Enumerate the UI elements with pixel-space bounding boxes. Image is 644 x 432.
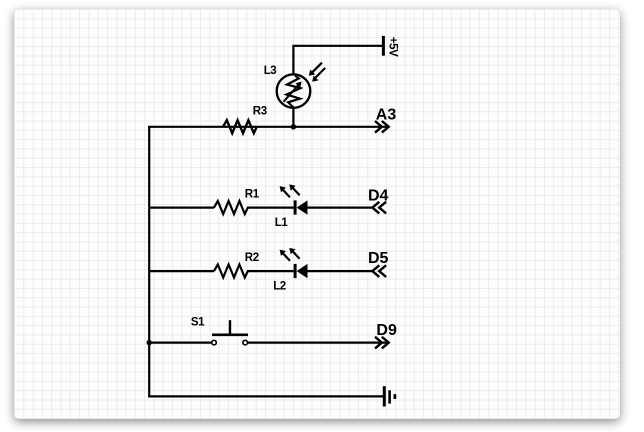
svg-text:R2: R2: [245, 252, 259, 264]
svg-text:R1: R1: [245, 188, 260, 200]
svg-text:D9: D9: [376, 322, 397, 339]
svg-text:S1: S1: [191, 317, 205, 329]
svg-text:D5: D5: [368, 250, 389, 267]
svg-text:R3: R3: [253, 106, 267, 118]
svg-text:L2: L2: [273, 280, 286, 292]
svg-text:+5V: +5V: [387, 37, 399, 57]
svg-text:L1: L1: [275, 217, 289, 229]
svg-text:D4: D4: [368, 188, 389, 205]
svg-text:L3: L3: [264, 65, 277, 77]
svg-text:A3: A3: [376, 107, 397, 124]
